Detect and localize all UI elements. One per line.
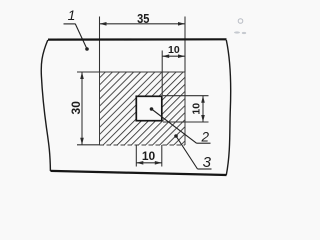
svg-text:10: 10	[191, 103, 203, 115]
svg-text:10: 10	[142, 149, 156, 163]
svg-text:10: 10	[168, 44, 180, 56]
svg-text:30: 30	[69, 101, 83, 115]
svg-text:3: 3	[203, 154, 212, 171]
svg-text:35: 35	[137, 11, 150, 26]
svg-text:1: 1	[68, 7, 76, 23]
svg-text:2: 2	[201, 130, 210, 145]
